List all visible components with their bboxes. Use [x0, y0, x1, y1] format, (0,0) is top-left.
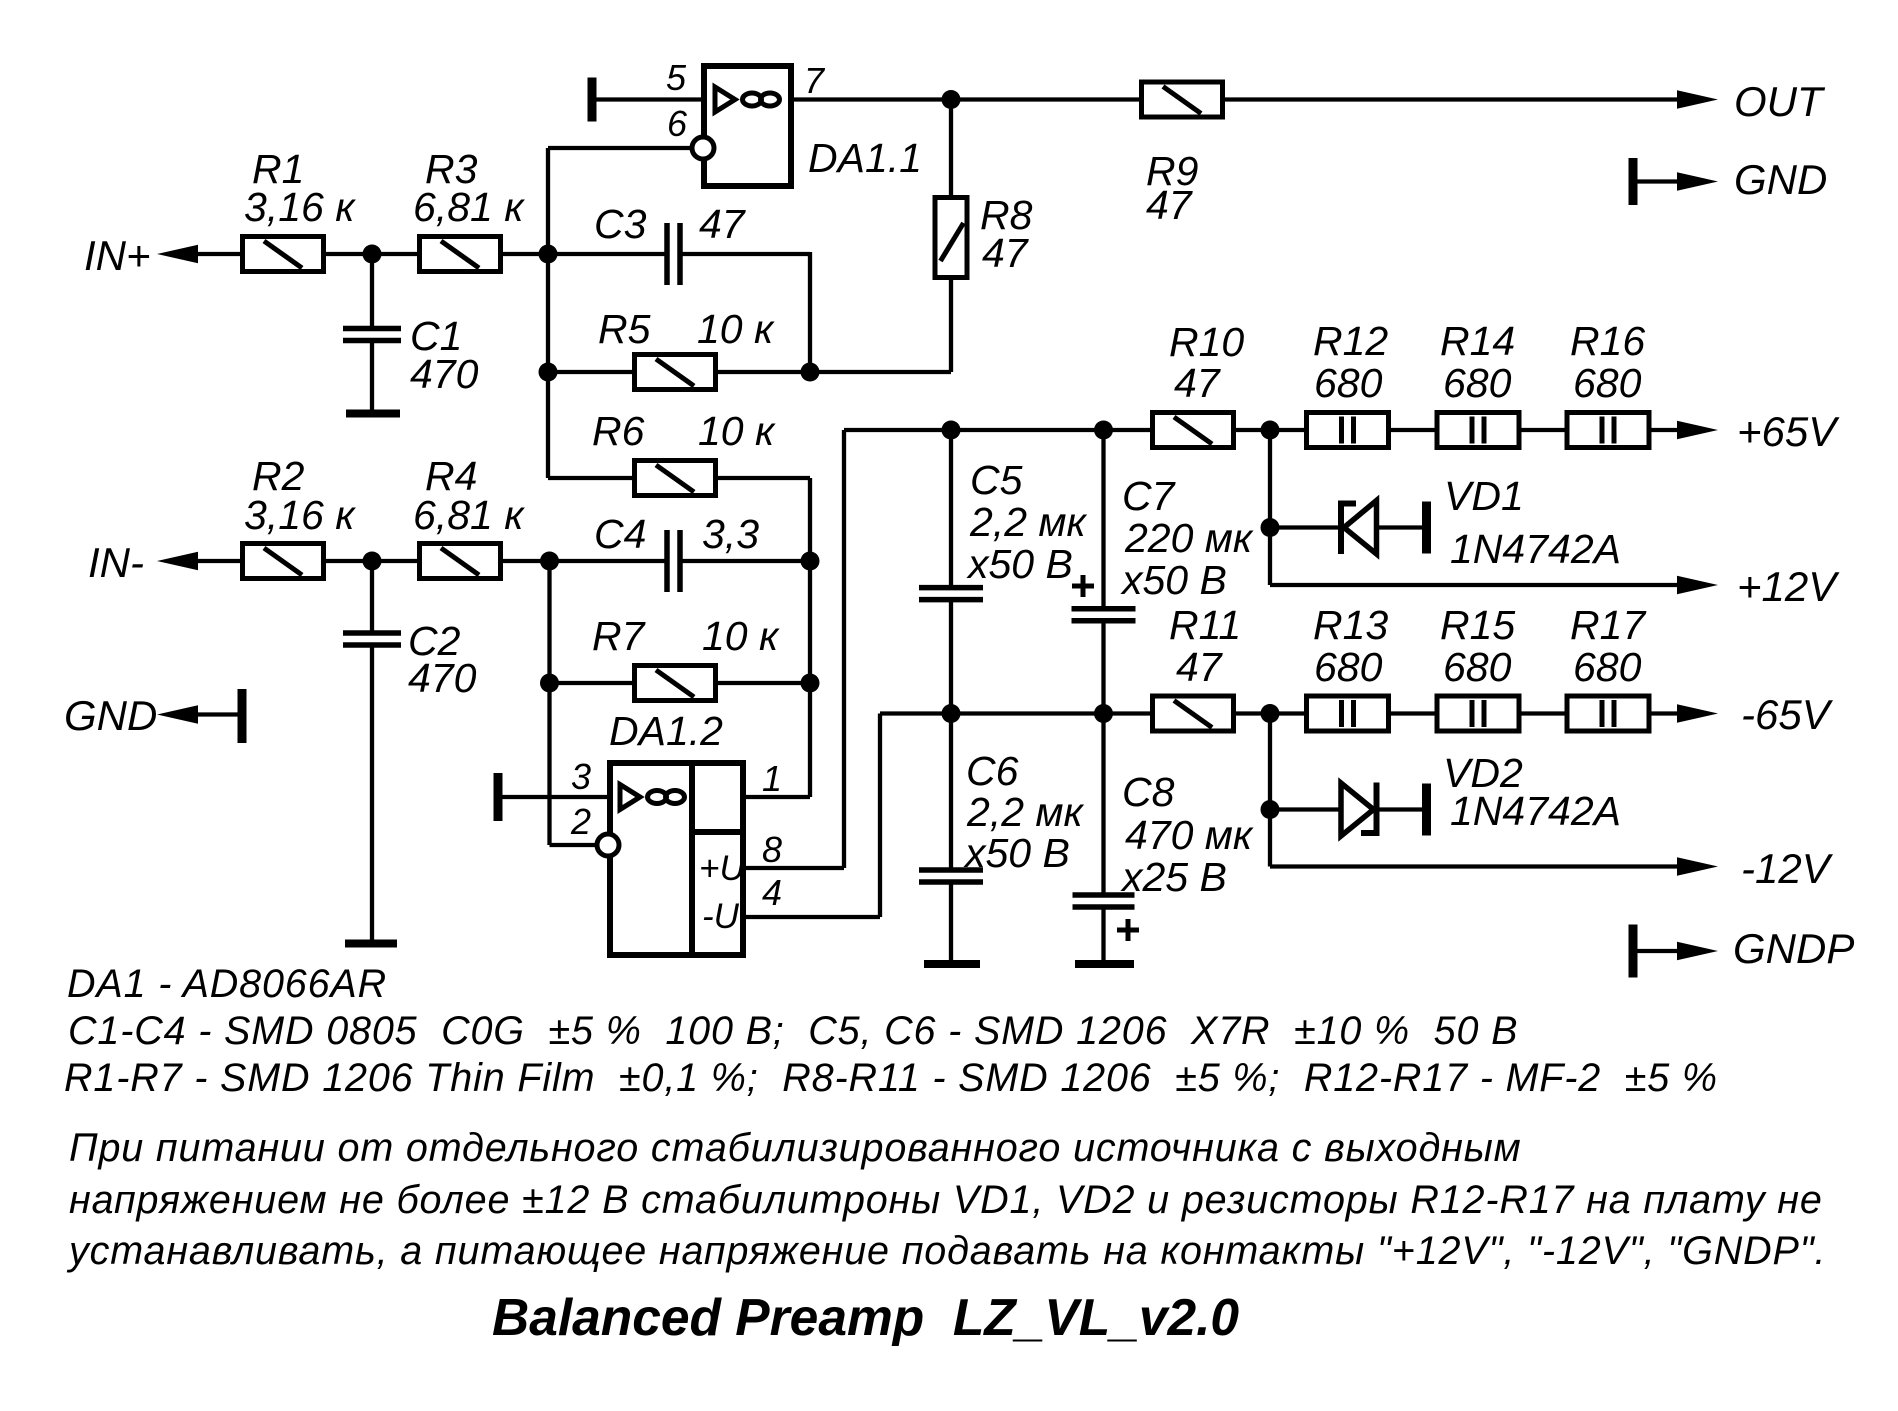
- value R15 680: [1443, 644, 1512, 690]
- junction dot VD2 column top: [1261, 704, 1280, 723]
- wire R10 to R12: [1234, 428, 1305, 432]
- junction dot node C row IN-: [540, 552, 559, 571]
- junction dot C6 top: [942, 704, 961, 723]
- capacitor C8: [1073, 895, 1135, 907]
- wire C8 lower: [1101, 909, 1105, 960]
- wire R6 row left: [548, 476, 633, 480]
- wire R12 to R14: [1389, 428, 1436, 432]
- wire pin 5: [595, 97, 704, 101]
- svg-text:3: 3: [571, 756, 591, 797]
- capacitor C7: [1072, 609, 1136, 621]
- value C4 3,3: [702, 511, 759, 557]
- value R6 10 к: [698, 408, 776, 454]
- value R13 680: [1314, 644, 1383, 690]
- capacitor C6: [919, 870, 983, 882]
- svg-text:R11: R11: [1169, 602, 1241, 648]
- svg-text:-U: -U: [702, 897, 740, 936]
- value R7 10 к: [702, 613, 780, 659]
- note paragraph line 1: [69, 1126, 1522, 1170]
- svg-text:1N4742A: 1N4742A: [1450, 788, 1621, 834]
- wire IN+ to R1: [198, 252, 241, 256]
- svg-text:4: 4: [762, 872, 782, 913]
- pin number 2: [570, 801, 591, 842]
- svg-text:680: 680: [1573, 360, 1642, 406]
- label R1: [252, 146, 304, 192]
- svg-text:DA1 - AD8066AR: DA1 - AD8066AR: [67, 962, 387, 1006]
- pin 2 inversion circle: [597, 834, 619, 856]
- svg-text:6,81 к: 6,81 к: [413, 184, 525, 230]
- svg-text:x25 В: x25 В: [1120, 854, 1227, 900]
- svg-text:3,16 к: 3,16 к: [244, 184, 356, 230]
- ground bar C5 C6 column: [924, 960, 980, 968]
- label DA1.2: [609, 708, 723, 754]
- svg-text:Balanced Preamp LZ_VL_v2.0: Balanced Preamp LZ_VL_v2.0: [492, 1288, 1239, 1346]
- wire R3 to node A: [501, 252, 548, 256]
- wire R15 to R17: [1518, 711, 1566, 715]
- label R14: [1440, 318, 1515, 364]
- svg-text:+U: +U: [699, 849, 745, 888]
- svg-text:R1-R7 - SMD 1206 Thin Film ±0: R1-R7 - SMD 1206 Thin Film ±0,1 %; R8-R1…: [64, 1056, 1718, 1100]
- wire C1 to ground bar: [370, 341, 374, 410]
- svg-text:GND: GND: [1734, 156, 1827, 203]
- wire C2 to ground bar: [370, 645, 374, 940]
- zener diode VD2: [1341, 783, 1377, 837]
- svg-text:680: 680: [1573, 644, 1642, 690]
- wire C6 lower: [949, 884, 953, 960]
- wire R6 row right: [715, 476, 810, 480]
- svg-text:DA1.1: DA1.1: [808, 135, 922, 181]
- value R5 10 к: [697, 306, 775, 352]
- wire R9 to OUT: [1223, 97, 1680, 101]
- svg-text:10 к: 10 к: [698, 408, 776, 454]
- svg-text:+12V: +12V: [1737, 563, 1840, 610]
- svg-text:2,2 мк: 2,2 мк: [966, 789, 1084, 835]
- svg-text:680: 680: [1314, 644, 1383, 690]
- svg-text:7: 7: [804, 60, 826, 101]
- value VD1 1N4742A: [1450, 526, 1621, 572]
- svg-text:напряжением не более ±12 В ста: напряжением не более ±12 В стабилитроны …: [69, 1178, 1823, 1222]
- wire R8 bottom to R5 node: [949, 278, 953, 372]
- svg-text:680: 680: [1443, 644, 1512, 690]
- junction dot VD2 node: [1261, 800, 1280, 819]
- value R9 47: [1146, 182, 1194, 228]
- svg-text:470: 470: [408, 655, 477, 701]
- value R11 47: [1176, 644, 1224, 690]
- pin number 6: [667, 103, 688, 144]
- wire -U column to -65V rail: [878, 714, 882, 918]
- resistor R7: [635, 666, 716, 701]
- svg-text:R10: R10: [1169, 319, 1244, 365]
- op-amp DA1.1 box: [704, 66, 791, 186]
- wire R13 to R15: [1389, 711, 1436, 715]
- pin number 4: [762, 872, 782, 913]
- pin number 3: [571, 756, 591, 797]
- spec line resistors: [64, 1056, 1718, 1100]
- value C7 220 мк: [1124, 515, 1254, 561]
- wire VD2 column: [1268, 714, 1272, 867]
- label R17: [1570, 602, 1647, 648]
- svg-text:5: 5: [666, 57, 687, 98]
- wire R14 to R16: [1518, 428, 1566, 432]
- wire GNDP: [1637, 949, 1680, 953]
- junction dot output DA1.1: [942, 90, 961, 109]
- svg-text:C4: C4: [594, 511, 646, 557]
- svg-text:-65V: -65V: [1741, 691, 1834, 738]
- resistor R5: [635, 355, 716, 390]
- svg-text:R12: R12: [1313, 318, 1388, 364]
- junction dot VD1 anode node: [1261, 518, 1280, 537]
- svg-text:VD1: VD1: [1444, 473, 1524, 519]
- svg-text:47: 47: [699, 201, 747, 247]
- svg-text:R5: R5: [598, 306, 651, 352]
- resistor R9: [1142, 82, 1223, 117]
- resistor R8 vertical: [935, 198, 967, 278]
- svg-text:DA1.2: DA1.2: [609, 708, 723, 754]
- junction dot C2 tap: [363, 552, 382, 571]
- note paragraph line 2: [69, 1178, 1823, 1222]
- power label -U: [702, 897, 740, 936]
- ground bar C2: [345, 940, 397, 948]
- op-amp DA1.1 symbol: [715, 87, 780, 112]
- svg-text:+65V: +65V: [1737, 408, 1840, 455]
- svg-text:R13: R13: [1313, 602, 1388, 648]
- wire to VD1: [1270, 525, 1339, 529]
- value R8 47: [982, 230, 1030, 276]
- pin 3 terminal bar: [494, 773, 503, 821]
- pin 5 terminal bar: [588, 78, 597, 122]
- svg-text:680: 680: [1443, 360, 1512, 406]
- junction dot node A row IN+: [539, 245, 558, 264]
- label C5: [970, 457, 1023, 503]
- svg-text:x50 В: x50 В: [966, 541, 1073, 587]
- svg-text:x50 В: x50 В: [1120, 557, 1227, 603]
- junction dot C7 top: [1094, 421, 1113, 440]
- value C6 x50 В: [963, 830, 1070, 876]
- svg-text:R15: R15: [1440, 602, 1515, 648]
- svg-text:C5: C5: [970, 457, 1023, 503]
- label R7: [592, 613, 647, 659]
- resistor R16: [1567, 413, 1649, 448]
- svg-text:C1-C4 - SMD 0805 C0G ±5 % 1: C1-C4 - SMD 0805 C0G ±5 % 100 В; C5, C6 …: [68, 1009, 1518, 1053]
- wire C3 to node B: [682, 252, 810, 256]
- wire R4 to node C: [501, 559, 550, 563]
- terminal GND right bar: [1629, 158, 1638, 205]
- capacitor C3: [667, 223, 680, 285]
- terminal GNDP bar: [1629, 925, 1638, 978]
- junction dot node D row C4: [801, 552, 820, 571]
- svg-text:220 мк: 220 мк: [1124, 515, 1254, 561]
- svg-text:680: 680: [1314, 360, 1383, 406]
- svg-text:C7: C7: [1122, 473, 1177, 519]
- terminal bar VD2: [1422, 784, 1431, 836]
- svg-text:6: 6: [667, 103, 688, 144]
- svg-text:2,2 мк: 2,2 мк: [969, 499, 1087, 545]
- svg-text:IN+: IN+: [84, 232, 151, 279]
- ground bar C1: [346, 410, 400, 418]
- value C6 2,2 мк: [966, 789, 1084, 835]
- svg-text:47: 47: [982, 230, 1030, 276]
- resistor R1: [243, 237, 324, 272]
- terminal GND left arrow: [157, 705, 198, 724]
- +12V wire: [1270, 583, 1680, 587]
- pin number 7: [804, 60, 826, 101]
- value C5 x50 В: [966, 541, 1073, 587]
- wire C6 column upper: [949, 714, 953, 869]
- value R14 680: [1443, 360, 1512, 406]
- value VD2 1N4742A: [1450, 788, 1621, 834]
- svg-text:C3: C3: [594, 201, 647, 247]
- plus sign C8: [1117, 919, 1139, 941]
- value C3 47: [699, 201, 747, 247]
- wire node A to R5: [548, 370, 633, 374]
- wire pin 4 -U: [743, 915, 880, 919]
- label R5: [598, 306, 651, 352]
- terminal GND left bar: [238, 689, 247, 743]
- label R4: [425, 453, 477, 499]
- value R12 680: [1314, 360, 1383, 406]
- label C6: [966, 748, 1019, 794]
- svg-text:C8: C8: [1122, 769, 1175, 815]
- label DA1.1: [808, 135, 922, 181]
- svg-text:470: 470: [410, 351, 479, 397]
- terminal +65V arrow: [1677, 421, 1718, 440]
- label R8: [980, 192, 1033, 238]
- -12V wire: [1270, 864, 1680, 868]
- terminal GNDP arrow: [1677, 942, 1718, 961]
- wire VD1 to terminal: [1379, 525, 1423, 529]
- resistor R6: [635, 461, 716, 496]
- label R11: [1169, 602, 1241, 648]
- wire C2 column upper: [370, 561, 374, 631]
- resistor R17: [1567, 696, 1649, 731]
- wire C4 to node D: [682, 559, 810, 563]
- svg-text:8: 8: [762, 829, 782, 870]
- terminal label +65V: [1737, 408, 1840, 455]
- value R17 680: [1573, 644, 1642, 690]
- wire pin6 horizontal: [548, 146, 692, 150]
- value R3 6,81 к: [413, 184, 525, 230]
- svg-text:OUT: OUT: [1734, 78, 1826, 125]
- wire pin 1: [743, 795, 810, 799]
- label VD2: [1443, 750, 1523, 796]
- wire C1 column upper: [370, 254, 374, 326]
- wire VD2 to terminal: [1379, 807, 1423, 811]
- resistor R2: [243, 544, 324, 579]
- terminal label GNDP: [1733, 925, 1854, 972]
- wire pin 3: [501, 795, 610, 799]
- junction dot C8 top: [1094, 704, 1113, 723]
- terminal OUT arrow: [1677, 90, 1718, 109]
- capacitor C4: [667, 530, 680, 592]
- node C column: [547, 561, 551, 845]
- plus sign C7: [1072, 575, 1094, 597]
- wire to VD2: [1270, 807, 1342, 811]
- capacitor C1: [343, 329, 401, 341]
- svg-text:GNDP: GNDP: [1733, 925, 1854, 972]
- value C2 470: [408, 655, 477, 701]
- svg-text:47: 47: [1176, 644, 1224, 690]
- wire pin 8 +U: [743, 866, 844, 870]
- label C2: [408, 618, 461, 664]
- resistor R4: [420, 544, 501, 579]
- label C4: [594, 511, 646, 557]
- terminal label OUT: [1734, 78, 1826, 125]
- value C8 x25 В: [1120, 854, 1227, 900]
- value R2 3,16 к: [244, 492, 356, 538]
- terminal label +12V: [1737, 563, 1840, 610]
- resistor R14: [1437, 413, 1519, 448]
- wire C7 lower: [1101, 623, 1105, 714]
- svg-text:GND: GND: [64, 692, 157, 739]
- label C3: [594, 201, 647, 247]
- wire R2 to C2 tap: [326, 559, 374, 563]
- wire GND right: [1637, 179, 1680, 183]
- zener diode VD1: [1341, 501, 1377, 555]
- label C7: [1122, 473, 1177, 519]
- terminal +12V arrow: [1677, 576, 1718, 595]
- svg-text:1N4742A: 1N4742A: [1450, 526, 1621, 572]
- pin number 8: [762, 829, 782, 870]
- value C7 x50 В: [1120, 557, 1227, 603]
- label VD1: [1444, 473, 1524, 519]
- terminal label IN+: [84, 232, 151, 279]
- terminal label GND left: [64, 692, 157, 739]
- pin 6 inversion circle: [692, 137, 714, 159]
- svg-text:10 к: 10 к: [702, 613, 780, 659]
- svg-text:R17: R17: [1570, 602, 1647, 648]
- wire C7 column upper: [1101, 430, 1105, 607]
- wire node A to C3: [548, 252, 665, 256]
- svg-text:3,16 к: 3,16 к: [244, 492, 356, 538]
- resistor R10: [1153, 413, 1234, 448]
- wire node to R3: [372, 252, 418, 256]
- wire output to R9: [951, 97, 1140, 101]
- label R3: [425, 146, 478, 192]
- -65V rail left segment: [880, 711, 1151, 715]
- svg-text:R6: R6: [592, 408, 645, 454]
- resistor R11: [1153, 696, 1234, 731]
- terminal GND right arrow: [1677, 172, 1718, 191]
- label R13: [1313, 602, 1388, 648]
- svg-text:10 к: 10 к: [697, 306, 775, 352]
- wire pin 2: [550, 843, 598, 847]
- value R10 47: [1174, 360, 1222, 406]
- pin number 5: [666, 57, 687, 98]
- svg-text:-12V: -12V: [1741, 845, 1834, 892]
- terminal bar VD1: [1422, 502, 1431, 554]
- value R1 3,16 к: [244, 184, 356, 230]
- +65V rail left segment: [844, 428, 1151, 432]
- node D column: [808, 478, 812, 797]
- svg-text:C6: C6: [966, 748, 1019, 794]
- svg-text:470 мк: 470 мк: [1125, 812, 1254, 858]
- op-amp DA1.2 symbol: [620, 785, 685, 810]
- terminal -12V arrow: [1677, 857, 1718, 876]
- label R9: [1146, 148, 1198, 194]
- label R6: [592, 408, 645, 454]
- svg-text:3,3: 3,3: [702, 511, 759, 557]
- junction dot node A R5 row: [539, 363, 558, 382]
- wire tap to R4: [372, 559, 418, 563]
- svg-text:R14: R14: [1440, 318, 1515, 364]
- resistor R13: [1307, 696, 1389, 731]
- wire R5 to node B: [715, 370, 951, 374]
- op-amp DA1.2 box: [610, 763, 743, 955]
- note paragraph line 3: [66, 1229, 1826, 1273]
- terminal IN- arrow: [157, 552, 198, 571]
- resistor R12: [1307, 413, 1389, 448]
- label C8: [1122, 769, 1175, 815]
- pin number 1: [762, 758, 782, 799]
- wire C5 lower: [949, 602, 953, 714]
- capacitor C5: [919, 588, 983, 600]
- svg-text:1: 1: [762, 758, 782, 799]
- ground bar C7 C8 column: [1075, 960, 1134, 968]
- wire C8 column upper: [1101, 714, 1105, 894]
- junction dot node B R5 row: [801, 363, 820, 382]
- junction dot C1 tap: [363, 245, 382, 264]
- node B column upper: [808, 252, 812, 372]
- junction dot node C R7 row: [540, 674, 559, 693]
- wire node C to R7: [550, 681, 634, 685]
- junction dot VD1 column top: [1261, 421, 1280, 440]
- wire R8 top: [949, 100, 953, 198]
- terminal label IN-: [88, 539, 144, 586]
- wire R1 to node IN+A: [326, 252, 374, 256]
- junction dot node D R7 row: [801, 674, 820, 693]
- value C1 470: [410, 351, 479, 397]
- label C1: [410, 313, 462, 359]
- value R4 6,81 к: [413, 492, 525, 538]
- value C8 470 мк: [1125, 812, 1254, 858]
- svg-text:IN-: IN-: [88, 539, 144, 586]
- resistor R3: [420, 237, 501, 272]
- svg-text:47: 47: [1174, 360, 1222, 406]
- wire GND left: [198, 712, 238, 716]
- terminal IN+ arrow: [157, 245, 198, 264]
- svg-text:6,81 к: 6,81 к: [413, 492, 525, 538]
- svg-text:x50 В: x50 В: [963, 830, 1070, 876]
- terminal label -65V: [1741, 691, 1834, 738]
- wire C5 column upper: [949, 430, 953, 585]
- spec line DA1: [67, 962, 387, 1006]
- svg-text:При питании от отдельного стаб: При питании от отдельного стабилизирован…: [69, 1126, 1522, 1170]
- capacitor C2: [343, 633, 401, 645]
- resistor R15: [1437, 696, 1519, 731]
- wire VD1 column upper: [1268, 430, 1272, 585]
- wire R17 to -65V: [1648, 711, 1680, 715]
- wire IN- to R2: [198, 559, 241, 563]
- wire pin 7 to junction: [791, 97, 951, 101]
- junction dot C5 top: [942, 421, 961, 440]
- label R15: [1440, 602, 1515, 648]
- node A column: [546, 148, 550, 478]
- svg-text:устанавливать, а питающее напр: устанавливать, а питающее напряжение под…: [66, 1229, 1826, 1273]
- wire +U column to +65V rail: [842, 430, 846, 868]
- wire R7 to node D: [715, 681, 810, 685]
- value R16 680: [1573, 360, 1642, 406]
- wire R16 to +65V: [1648, 428, 1680, 432]
- label R16: [1570, 318, 1645, 364]
- svg-text:R16: R16: [1570, 318, 1645, 364]
- value C5 2,2 мк: [969, 499, 1087, 545]
- label R10: [1169, 319, 1244, 365]
- terminal label GND right: [1734, 156, 1827, 203]
- title Balanced Preamp LZ_VL_v2.0: [492, 1288, 1239, 1346]
- terminal label -12V: [1741, 845, 1834, 892]
- svg-text:47: 47: [1146, 182, 1194, 228]
- power label +U: [699, 849, 745, 888]
